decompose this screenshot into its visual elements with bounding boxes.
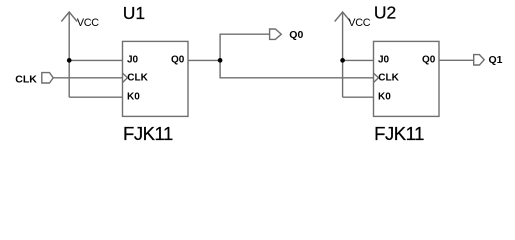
wire CLK input to U1 (53, 77, 122, 79)
wire K0 feed U2 (343, 96, 374, 98)
svg-text:K0: K0 (378, 92, 391, 103)
wire node Q0 to U2 CLK (220, 60, 373, 77)
svg-text:VCC: VCC (77, 17, 99, 29)
svg-text:U2: U2 (374, 3, 396, 23)
wire J0 feed U1 (69, 59, 122, 61)
power VCC arrowhead U2 (335, 12, 351, 22)
pin U2 CLK dynamic marker (374, 73, 379, 82)
flip-flop U2 body (374, 41, 440, 116)
wire K0 feed U1 (69, 96, 122, 98)
svg-text:K0: K0 (127, 92, 140, 103)
svg-text:CLK: CLK (378, 73, 399, 84)
flip-flop U1 body (123, 41, 189, 116)
svg-text:Q0: Q0 (422, 55, 436, 66)
wire U2 Q0 output (439, 59, 474, 61)
svg-text:Q0: Q0 (289, 29, 303, 41)
svg-text:Q0: Q0 (171, 55, 185, 66)
port Q0 output symbol (270, 29, 282, 39)
wire U1 Q0 output (188, 59, 220, 61)
svg-text:FJK11: FJK11 (123, 123, 173, 144)
power VCC arrowhead U1 (61, 12, 77, 22)
svg-text:CLK: CLK (15, 74, 37, 86)
wire node Q0 up tap (220, 34, 270, 60)
junction node U1 (J0 tap) (67, 58, 72, 63)
svg-text:FJK11: FJK11 (374, 123, 424, 144)
pin U1 CLK dynamic marker (123, 73, 128, 82)
power VCC (U1 rail) (61, 12, 77, 97)
svg-text:J0: J0 (127, 55, 139, 66)
svg-text:U1: U1 (123, 3, 145, 23)
port CLK input symbol (42, 73, 53, 83)
wire J0 feed U2 (343, 59, 374, 61)
wire VCC rail U2 vertical (342, 12, 344, 97)
junction node Q0 net (218, 58, 223, 63)
wire VCC rail U1 vertical (68, 12, 70, 97)
port Q1 output symbol (474, 55, 485, 65)
svg-text:CLK: CLK (127, 73, 148, 84)
svg-text:J0: J0 (378, 55, 390, 66)
power VCC (U2 rail) (335, 12, 351, 97)
junction node U2 (J0 tap) (340, 58, 345, 63)
svg-text:VCC: VCC (348, 17, 370, 29)
svg-text:Q1: Q1 (489, 54, 503, 66)
